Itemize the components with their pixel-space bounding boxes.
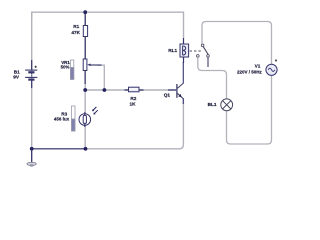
- wire LDR branch vertical: [84, 90, 86, 149]
- resistor R1: [83, 14, 87, 60]
- LDR R3: [79, 107, 98, 127]
- AC source V1: [266, 60, 277, 76]
- node junction top rail: [83, 10, 87, 14]
- transistor Q1: [168, 62, 183, 104]
- wire bottom rail navy segment: [32, 148, 86, 150]
- svg-text:R1: R1: [73, 24, 79, 29]
- wire lamp bottom loop: [227, 75, 272, 144]
- potentiometer VR1: [83, 59, 101, 84]
- wire top rail: [32, 12, 184, 38]
- slider R3: [72, 106, 76, 131]
- svg-text:RL1: RL1: [168, 48, 177, 53]
- lamp BL1: [221, 99, 233, 111]
- svg-text:V1: V1: [255, 64, 261, 69]
- ground: [27, 149, 36, 167]
- svg-text:50%: 50%: [61, 65, 70, 70]
- node junction LDR bottom: [84, 147, 88, 151]
- wire R1 branch vertical: [84, 12, 86, 90]
- node junction pot bottom: [83, 88, 87, 92]
- wire contact NC to lamp: [198, 57, 227, 98]
- relay dashed link: [190, 50, 201, 52]
- svg-text:9V: 9V: [13, 75, 20, 80]
- wire mains top: [202, 22, 272, 65]
- svg-text:Q1: Q1: [164, 93, 171, 98]
- relay contact SW: [197, 25, 210, 67]
- svg-text:BL1: BL1: [208, 102, 217, 107]
- wire pot wiper drop: [97, 65, 104, 90]
- wire battery left vertical: [31, 12, 33, 149]
- svg-text:220V / 50Hz: 220V / 50Hz: [237, 70, 263, 75]
- battery B1: [25, 60, 37, 88]
- svg-text:R2: R2: [130, 96, 136, 101]
- slider VR1: [70, 60, 73, 79]
- wire bottom rail: [32, 98, 184, 149]
- svg-text:1K: 1K: [130, 101, 137, 106]
- resistor R2: [125, 87, 144, 92]
- node junction battery bottom: [30, 147, 34, 151]
- node junction wiper: [103, 88, 107, 92]
- svg-text:456 lux: 456 lux: [54, 116, 70, 121]
- wire base node horizontal: [85, 89, 176, 91]
- svg-text:47K: 47K: [71, 30, 80, 35]
- relay coil RL1: [180, 38, 189, 63]
